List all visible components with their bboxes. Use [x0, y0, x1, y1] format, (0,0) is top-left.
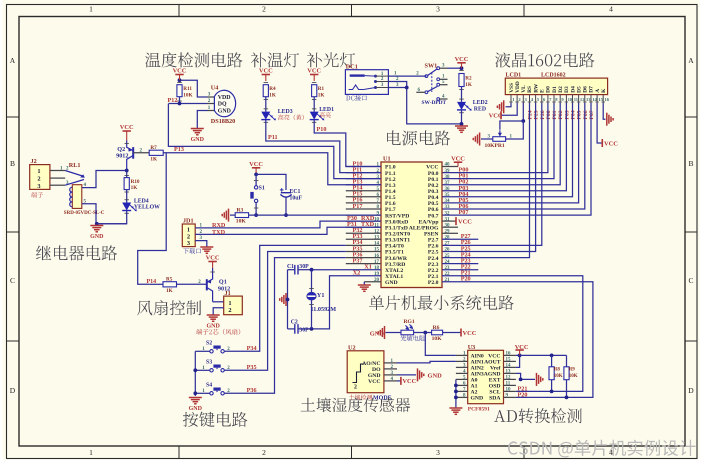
node R9/SDA	[565, 396, 569, 400]
node P12 junction	[178, 102, 182, 106]
resistor R6	[432, 330, 443, 335]
svg-text:P01: P01	[552, 110, 558, 119]
svg-text:J1: J1	[225, 290, 231, 297]
power VCC (U2)	[400, 377, 402, 385]
svg-text:26: 26	[445, 248, 451, 253]
svg-text:P06: P06	[583, 110, 589, 119]
resistor R4	[264, 82, 269, 84]
svg-text:X2: X2	[353, 269, 361, 276]
svg-text:3: 3	[436, 5, 440, 14]
node DC pins2-3	[405, 86, 409, 90]
svg-text:LED1: LED1	[319, 107, 334, 113]
wires J2 pins to relay contacts	[50, 170, 65, 172]
wire D4 / P04	[442, 103, 573, 197]
power VCC (reset)	[252, 167, 260, 169]
svg-text:VCC: VCC	[455, 56, 469, 63]
label DC interface	[346, 95, 367, 101]
relay RL1 coil	[72, 185, 82, 209]
svg-text:D7: D7	[589, 86, 595, 93]
wire S4 to MCU pin	[224, 258, 345, 394]
svg-text:P2.3: P2.3	[428, 262, 439, 268]
svg-text:1K: 1K	[150, 156, 157, 162]
wire P12 net down-right to MCU pin3	[168, 104, 381, 179]
svg-text:RS: RS	[527, 86, 533, 93]
capacitor C2 30P	[288, 328, 295, 330]
svg-text:10K: 10K	[554, 374, 563, 379]
svg-text:P12: P12	[168, 97, 178, 104]
svg-text:P3.4/T0: P3.4/T0	[385, 244, 404, 250]
title AD conversion detect	[494, 408, 582, 423]
svg-text:S1: S1	[259, 186, 265, 192]
svg-text:RG1: RG1	[404, 319, 415, 325]
svg-text:VCC: VCC	[463, 330, 477, 337]
title light lamp	[307, 52, 355, 67]
wire net P27 stub	[442, 238, 478, 240]
svg-text:VCC: VCC	[451, 155, 465, 162]
title fan control	[137, 300, 201, 315]
wire gnd to RG1	[386, 332, 402, 334]
wire VCC rail to EC1	[256, 174, 286, 190]
svg-text:1K: 1K	[131, 185, 138, 191]
connector J1 (fan terminal)	[224, 296, 243, 315]
wire R8 bottom to SCL line	[551, 380, 553, 392]
node EC1/rail junction	[284, 213, 288, 217]
node VCC/R11 junction	[178, 78, 182, 82]
ground (U3)	[449, 407, 462, 409]
wire U3 A0-A2+GND tie to ground	[455, 379, 457, 407]
svg-text:D4: D4	[570, 86, 576, 93]
svg-text:U4: U4	[211, 85, 219, 92]
svg-text:RL1: RL1	[69, 162, 81, 169]
ground (fan)	[207, 314, 220, 316]
wire net P13 from R7 to MCU pin4, branch to fan	[163, 153, 381, 185]
wire Q2 base to R7	[133, 152, 149, 154]
wire MCU GND pin20 to ground	[364, 281, 381, 283]
svg-text:VCC: VCC	[458, 218, 472, 225]
wire S2 left to common rail	[195, 350, 210, 352]
svg-text:A: A	[688, 56, 694, 65]
wire DC1 pin2/pin3 junction to ground rail	[388, 82, 461, 124]
svg-text:P07: P07	[459, 209, 469, 216]
svg-text:U3: U3	[468, 344, 476, 351]
svg-text:R8: R8	[554, 368, 561, 373]
IC LCD1 LCD1602	[505, 78, 607, 95]
wire LCD A pin15 to VCC	[597, 103, 602, 143]
svg-text:11: 11	[574, 97, 579, 102]
svg-text:2: 2	[354, 385, 357, 391]
wire LCD VDD pin2 to VCC	[502, 103, 518, 115]
svg-text:C1: C1	[287, 264, 294, 270]
power VCC (U3)	[515, 349, 523, 351]
svg-text:D2: D2	[558, 86, 564, 93]
node divider junction	[423, 331, 427, 335]
wire D7 / P07	[442, 103, 591, 215]
resistor R11	[177, 82, 182, 84]
power VCC (fan)	[208, 261, 216, 263]
wire RG1 to R6	[414, 332, 432, 334]
wire JD1 pin3 to ground	[195, 241, 207, 247]
svg-text:C2: C2	[291, 319, 298, 325]
svg-text:SRD-05VDC-SL-C: SRD-05VDC-SL-C	[64, 211, 105, 216]
svg-text:VCC: VCC	[426, 165, 438, 171]
LED LED4	[125, 199, 129, 201]
svg-text:2: 2	[262, 5, 266, 14]
resistor R9	[566, 355, 568, 366]
svg-text:1: 1	[37, 168, 40, 175]
svg-text:EC1: EC1	[290, 189, 301, 195]
svg-text:1: 1	[89, 448, 93, 457]
resistor R8	[551, 355, 553, 366]
svg-text:VCC: VCC	[368, 379, 380, 385]
wire U3 AGND pin13 + EXT pin12 to ground	[516, 373, 535, 379]
title temperature detect circuit	[145, 52, 242, 67]
svg-text:TXD: TXD	[212, 229, 226, 236]
svg-text:VDD: VDD	[218, 95, 231, 101]
svg-text:VCC: VCC	[249, 161, 263, 168]
svg-text:P03: P03	[564, 110, 570, 119]
wire R6 to VCC	[443, 332, 461, 334]
node key rail S3	[193, 368, 197, 372]
svg-text:9012: 9012	[116, 153, 128, 160]
IC U4 DS18B20 (TO-92)	[214, 90, 235, 116]
node XTAL1/C2 junction	[310, 327, 314, 331]
svg-text:10K: 10K	[183, 92, 192, 98]
svg-text:35: 35	[445, 193, 451, 198]
svg-text:R3: R3	[237, 208, 244, 214]
resistor R10	[124, 178, 129, 190]
svg-text:P2.0: P2.0	[428, 280, 439, 286]
potentiometer PR1 10K	[493, 137, 506, 142]
svg-text:P3.7/RD: P3.7/RD	[385, 262, 405, 268]
switch S3	[210, 369, 213, 372]
svg-text:2: 2	[262, 448, 266, 457]
svg-text:1: 1	[187, 226, 190, 233]
ground (LCD K, rotated)	[606, 113, 608, 126]
svg-text:11.0592M: 11.0592M	[311, 306, 337, 313]
wire XTAL1 route X2	[312, 276, 382, 329]
watermark CSDN	[508, 440, 696, 458]
wire LCD K pin16 to ground	[603, 103, 605, 119]
svg-text:P05: P05	[577, 110, 583, 119]
label photoresistor	[400, 335, 424, 341]
title LCD1602 circuit	[495, 52, 594, 67]
wire J1 pin2 to ground	[213, 308, 224, 315]
svg-text:U1: U1	[383, 156, 391, 163]
svg-text:1K: 1K	[269, 92, 276, 98]
node VL junction	[521, 119, 525, 123]
svg-text:38: 38	[445, 175, 451, 180]
svg-text:LED3: LED3	[278, 109, 293, 115]
wire R11 bottom / node P12 to DS18B20 DQ	[179, 97, 181, 104]
svg-text:VCC: VCC	[307, 68, 321, 75]
pin stubs ALE, PSEN	[442, 226, 458, 228]
wire U2 VCC	[397, 380, 401, 382]
svg-text:P3.0/RxD: P3.0/RxD	[385, 219, 408, 225]
IC U3 PCF8591	[468, 350, 504, 403]
node R8 top	[550, 354, 554, 358]
svg-text:P0.4: P0.4	[428, 195, 439, 201]
svg-text:3: 3	[187, 240, 190, 247]
resistor R5	[163, 282, 177, 287]
svg-text:Q1: Q1	[219, 278, 227, 285]
node GND tie	[454, 396, 458, 400]
wire pot pin3 to ground	[481, 138, 493, 140]
svg-text:P36: P36	[247, 387, 257, 394]
svg-text:GND: GND	[218, 108, 231, 114]
svg-text:R1: R1	[318, 86, 325, 92]
wire net P22 stub	[442, 269, 478, 271]
svg-text:R7: R7	[150, 145, 157, 151]
U3 left pin stubs	[456, 354, 468, 356]
svg-text:P35: P35	[247, 364, 257, 371]
ground (U3 AGND, rotated)	[536, 373, 538, 386]
svg-text:EA/Vpp: EA/Vpp	[419, 219, 439, 225]
node ground junction (power)	[460, 122, 464, 126]
svg-text:DQ: DQ	[218, 102, 227, 108]
svg-text:P1.6: P1.6	[385, 201, 396, 207]
wire S4 left to common rail	[195, 392, 210, 394]
svg-text:2: 2	[37, 176, 40, 183]
LED LED1	[312, 108, 317, 110]
U4 pin stubs	[208, 96, 215, 98]
svg-text:DC1: DC1	[346, 63, 358, 70]
wire DS18B20 GND pin to ground	[197, 111, 207, 129]
relay RL1 contacts	[65, 171, 84, 177]
label soil probe MODE	[349, 395, 372, 401]
U2 probe symbol	[353, 364, 365, 383]
svg-text:D3: D3	[564, 86, 570, 93]
ground (power circuit)	[455, 125, 468, 127]
switch S1 (reset button)	[254, 180, 259, 182]
svg-text:P3.5/T1: P3.5/T1	[385, 250, 404, 256]
wire LCD RS to MCU P2.4	[442, 103, 530, 258]
wire D0 / P00	[442, 103, 548, 173]
svg-text:P10: P10	[317, 126, 327, 133]
svg-text:U2: U2	[348, 344, 356, 351]
svg-text:C: C	[10, 276, 15, 285]
svg-text:R6: R6	[433, 325, 440, 331]
svg-text:P0.6: P0.6	[428, 207, 439, 213]
wire net P20 to AD converter SDA	[442, 282, 593, 398]
resistor R1	[312, 82, 317, 84]
svg-text:33: 33	[445, 205, 451, 210]
title MCU minimal system	[369, 295, 514, 310]
title relay circuit	[36, 245, 117, 260]
connector J2	[30, 165, 50, 190]
svg-text:RW: RW	[533, 83, 539, 93]
wire collector node to R10	[126, 171, 128, 178]
svg-text:10K: 10K	[569, 374, 578, 379]
wire R1 to LED1	[313, 97, 315, 112]
wire LED2 to ground	[461, 110, 463, 124]
svg-text:10uF: 10uF	[290, 196, 303, 202]
svg-text:B: B	[10, 159, 15, 168]
svg-text:16: 16	[605, 97, 610, 102]
wire U2 AO to U3 AIN1	[397, 361, 456, 363]
node VCC/R2 top	[460, 66, 464, 70]
svg-text:S3: S3	[206, 360, 212, 366]
svg-text:P1.2: P1.2	[385, 177, 396, 183]
svg-text:LED4: LED4	[134, 198, 149, 204]
switch S4	[210, 392, 213, 395]
svg-text:VCC: VCC	[206, 255, 220, 262]
node XTAL2/C1 junction	[310, 268, 314, 272]
svg-text:S2: S2	[206, 341, 212, 347]
crystal Y1	[311, 270, 313, 292]
svg-text:R4: R4	[269, 86, 276, 92]
wire EC1 to rail	[285, 197, 287, 215]
svg-text:D: D	[10, 386, 16, 395]
svg-text:30P: 30P	[299, 328, 309, 334]
ground (reset, rotated)	[228, 209, 230, 222]
svg-text:3: 3	[37, 183, 40, 190]
svg-text:A: A	[595, 89, 601, 93]
MCU left pin stubs 1-8	[346, 166, 381, 168]
power VCC (heat lamp)	[262, 74, 270, 76]
svg-text:10K: 10K	[236, 219, 247, 225]
svg-text:LCD1: LCD1	[506, 73, 522, 79]
wire Q1 collector to J1 pin1	[213, 301, 224, 303]
svg-text:34: 34	[445, 199, 451, 204]
LED LED3	[264, 108, 269, 110]
ground (pot, rotated)	[479, 133, 481, 146]
svg-text:39: 39	[445, 169, 451, 174]
svg-text:P24: P24	[527, 110, 533, 119]
svg-text:VCC: VCC	[604, 140, 618, 147]
svg-text:P25: P25	[534, 110, 540, 119]
wire R10 to LED4	[126, 190, 128, 203]
transistor Q2 9012 (PNP)	[132, 147, 134, 159]
wire LCD RW to MCU P2.5	[442, 103, 536, 252]
LED LED2	[459, 98, 464, 100]
LCD pin stubs and pin numbers	[510, 95, 512, 103]
svg-text:D6: D6	[583, 86, 589, 93]
transistor Q1 9012 (PNP)	[206, 279, 208, 290]
svg-text:ALE/PROG: ALE/PROG	[409, 225, 439, 231]
svg-text:3: 3	[436, 448, 440, 457]
node A1 tie	[454, 384, 458, 388]
svg-text:P0.5: P0.5	[428, 201, 439, 207]
ground (DS18B20)	[191, 128, 204, 130]
wire R2 to LED2	[461, 87, 463, 102]
wire LED1 to net P10, to MCU pin1	[314, 120, 381, 167]
node reset VCC junction	[254, 173, 258, 177]
MCU pins 10-17 stubs	[346, 214, 381, 216]
svg-text:10K: 10K	[432, 336, 443, 342]
svg-text:SW-DPDT: SW-DPDT	[422, 100, 447, 106]
node Q2 collector junction	[125, 169, 129, 173]
svg-text:GND: GND	[471, 396, 484, 402]
wire key common rail	[194, 351, 196, 396]
svg-text:D0: D0	[546, 86, 552, 93]
svg-text:D1: D1	[552, 86, 558, 93]
svg-text:4: 4	[609, 5, 613, 14]
wire S3 to MCU pin	[224, 252, 345, 371]
capacitor C1 30P	[288, 269, 295, 271]
svg-text:P26: P26	[540, 110, 546, 119]
svg-text:R10: R10	[131, 179, 140, 185]
power VCC (relay driver Q2)	[123, 130, 131, 132]
svg-text:VL: VL	[521, 85, 527, 93]
svg-text:GND: GND	[90, 234, 104, 240]
node EXT junction	[519, 378, 523, 382]
svg-text:E: E	[540, 89, 546, 93]
ground (LCD VSS, rotated)	[503, 100, 505, 113]
svg-text:1: 1	[228, 300, 231, 307]
wire TXD from JD1 pin2 to MCU pin11	[195, 227, 381, 234]
svg-text:VCC: VCC	[120, 124, 134, 131]
wire P13 branch to R5	[149, 283, 163, 285]
connector DC1 (DC jack)	[345, 70, 388, 95]
svg-text:XTAL2: XTAL2	[385, 268, 403, 274]
svg-text:LCD1602: LCD1602	[541, 73, 566, 79]
svg-text:YELLOW: YELLOW	[134, 205, 160, 211]
svg-text:P1.5: P1.5	[385, 195, 396, 201]
svg-text:P20: P20	[518, 391, 528, 398]
wire R3 to ground	[230, 214, 235, 216]
switch S2	[210, 350, 213, 353]
resistor R3	[235, 213, 248, 218]
capacitor EC1 10uF (electrolytic)	[281, 192, 291, 194]
svg-text:25: 25	[445, 254, 451, 259]
label duanzi	[31, 192, 43, 198]
svg-text:P1.3: P1.3	[385, 183, 396, 189]
ground (crystal, rotated)	[287, 299, 288, 301]
svg-text:A: A	[10, 56, 16, 65]
label fan terminal	[196, 329, 240, 335]
ground (keys)	[189, 397, 202, 399]
svg-text:PCF8591: PCF8591	[468, 406, 490, 412]
wire reset rail to MCU pin9	[249, 214, 381, 216]
connector JD1 (download port)	[182, 224, 195, 247]
wire net P21 to AD converter SCL	[442, 276, 583, 392]
svg-text:GND: GND	[207, 323, 221, 329]
svg-text:P3.1/TxD: P3.1/TxD	[385, 225, 408, 231]
wire P13 branch down to fan R5	[138, 153, 167, 284]
svg-text:P00: P00	[546, 110, 552, 119]
svg-text:B: B	[688, 159, 693, 168]
wire VCC to S1	[255, 174, 257, 185]
svg-text:P04: P04	[571, 110, 577, 119]
wire LED4 to ground rail	[97, 211, 127, 224]
node U3 VCC junction	[518, 354, 522, 358]
svg-text:VDD: VDD	[515, 81, 521, 93]
svg-text:VSS: VSS	[509, 83, 515, 93]
svg-text:R5: R5	[166, 277, 173, 283]
svg-text:P20: P20	[461, 276, 471, 283]
wire D1 / P01	[442, 103, 554, 179]
svg-text:P17: P17	[353, 203, 363, 210]
node A2 tie	[454, 390, 458, 394]
wire U2 GND to ground	[397, 374, 416, 376]
svg-text:1K: 1K	[465, 82, 472, 88]
svg-text:RED: RED	[474, 107, 486, 113]
svg-text:P0.1: P0.1	[428, 177, 439, 183]
ground (relay)	[90, 225, 103, 227]
wire net P23 stub	[442, 263, 478, 265]
wire D5 / P05	[442, 103, 579, 203]
svg-text:P13: P13	[174, 146, 184, 153]
svg-text:P2.6: P2.6	[428, 244, 439, 250]
wire pot pin1 up to VL node	[506, 121, 524, 139]
resistor R2	[459, 70, 464, 72]
ground (U2, rotated)	[417, 368, 419, 381]
svg-text:VCC: VCC	[515, 344, 529, 351]
wire R5 to Q1 base	[177, 283, 207, 285]
svg-text:P2.5: P2.5	[428, 250, 439, 256]
svg-text:R11: R11	[183, 86, 192, 92]
svg-text:R2: R2	[465, 76, 472, 82]
